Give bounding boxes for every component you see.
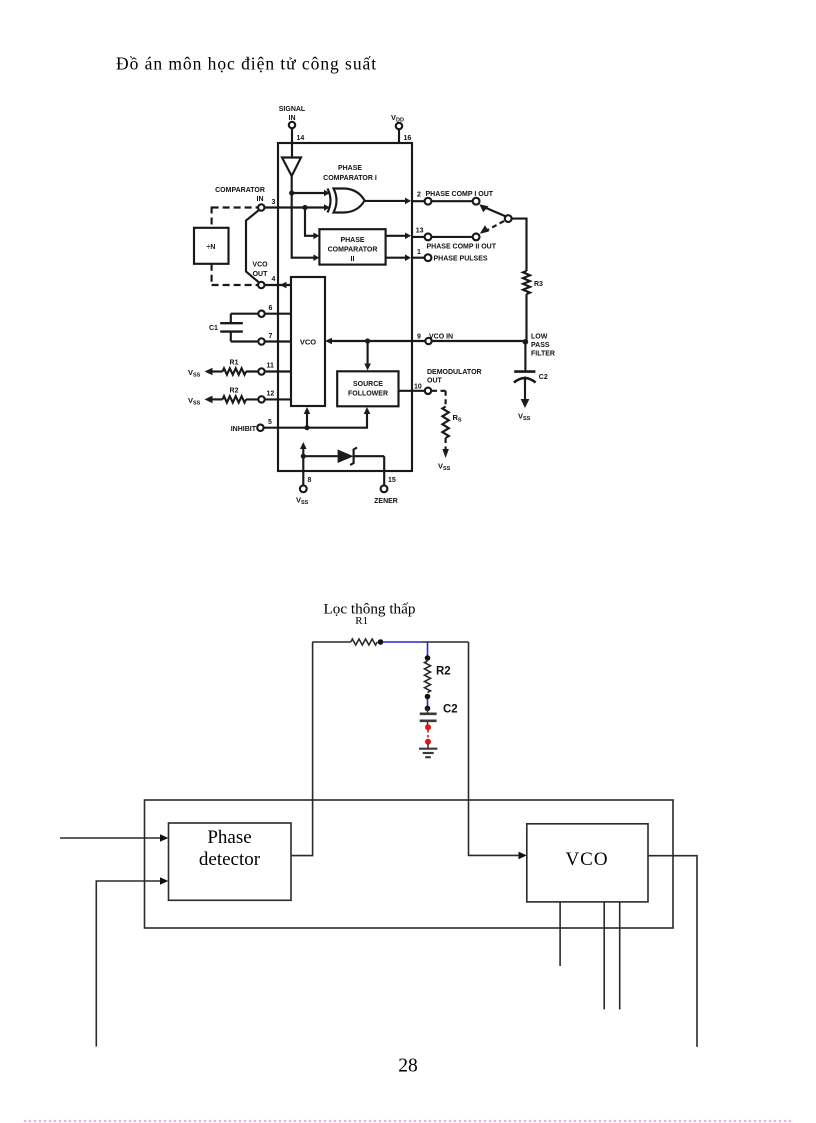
capacitor C2 — [514, 342, 548, 422]
pin 1 PHASE PULSES — [412, 249, 488, 263]
pin 8 VSS terminal — [296, 456, 312, 506]
wire pin3 junction to XOR lower input — [305, 204, 330, 211]
pin 4 VCO OUT terminal — [252, 262, 291, 289]
svg-text:VSS: VSS — [518, 412, 531, 423]
svg-text:COMPARATOR I: COMPARATOR I — [323, 175, 377, 182]
svg-text:IN: IN — [289, 115, 296, 122]
red node dot 2 — [425, 739, 431, 745]
svg-text:4: 4 — [272, 276, 276, 283]
pin 5 INHIBIT terminal — [231, 419, 307, 433]
junction on inhibit wire — [304, 425, 309, 430]
arrowhead into VCO (lower) — [519, 852, 527, 860]
svg-text:PHASE COMP II OUT: PHASE COMP II OUT — [427, 244, 497, 251]
pin 2 PHASE COMP I OUT — [412, 191, 494, 205]
svg-text:SOURCE: SOURCE — [353, 381, 383, 388]
pin 3 COMPARATOR IN terminal — [215, 187, 305, 211]
wire XOR output to pin 2 — [365, 198, 411, 205]
junction node below amplifier — [289, 190, 294, 195]
svg-text:VCO IN: VCO IN — [429, 334, 453, 341]
svg-text:II: II — [351, 256, 355, 263]
red node dot — [425, 724, 431, 730]
pin 13 PHASE COMP II OUT — [412, 228, 497, 251]
svg-text:SIGNAL: SIGNAL — [279, 106, 306, 113]
phase detector box — [169, 823, 292, 900]
svg-text:detector: detector — [199, 849, 261, 870]
svg-text:ZENER: ZENER — [374, 498, 398, 505]
VCO box (lower) — [527, 824, 648, 902]
svg-text:÷N: ÷N — [207, 244, 216, 251]
junction on VCO IN wire — [365, 338, 370, 343]
svg-text:PASS: PASS — [531, 342, 550, 349]
phase comparator II box — [319, 229, 385, 264]
junction dot below R2 — [425, 694, 431, 700]
junction on pin 8 wire — [301, 454, 306, 459]
XOR gate phase comparator I — [323, 165, 377, 213]
svg-text:LOW: LOW — [531, 334, 548, 341]
decorative dotted bottom border (pink) — [24, 1120, 792, 1123]
wire junction pin3 down to comparator II upper input — [305, 208, 319, 240]
junction low pass filter node — [523, 339, 529, 345]
pin 6 terminal — [231, 305, 291, 317]
resistor R1 (lower) — [351, 639, 378, 645]
svg-text:15: 15 — [388, 477, 396, 484]
svg-text:9: 9 — [417, 334, 421, 341]
LOW PASS FILTER label — [531, 334, 555, 358]
svg-text:14: 14 — [297, 135, 305, 142]
wire switch node to R3 — [512, 219, 527, 271]
switch wiper solid arm to pin2 — [479, 204, 506, 216]
svg-text:C1: C1 — [209, 325, 218, 332]
wire comparator II output to pin 1 — [386, 254, 411, 261]
svg-text:VCO: VCO — [252, 262, 268, 269]
resistor RS dashed leader and VSS arrow — [432, 391, 462, 472]
svg-text:2: 2 — [417, 192, 421, 199]
svg-text:8: 8 — [308, 477, 312, 484]
wire R3 down to VCO IN node — [525, 294, 527, 342]
svg-text:RS: RS — [453, 413, 462, 424]
wire filter top right segment — [421, 641, 468, 643]
input wire 1 with arrow — [60, 837, 162, 839]
source follower box — [337, 371, 398, 406]
svg-text:3: 3 — [272, 199, 276, 206]
svg-text:VSS: VSS — [188, 396, 201, 407]
svg-text:R1: R1 — [355, 615, 368, 627]
outer system rectangle — [145, 800, 674, 928]
wire junction down-arrow into source follower — [364, 341, 371, 371]
wire comparator II output to pin 13 — [386, 233, 411, 240]
svg-text:16: 16 — [404, 135, 412, 142]
svg-text:PHASE PULSES: PHASE PULSES — [434, 256, 488, 263]
svg-text:R1: R1 — [230, 360, 239, 367]
pin 14 terminal SIGNAL IN — [279, 106, 306, 157]
svg-text:VCO: VCO — [565, 849, 608, 870]
svg-text:FOLLOWER: FOLLOWER — [348, 391, 388, 398]
red dashed wire — [427, 730, 429, 739]
pin 9 VCO IN wire with arrow into VCO — [325, 334, 453, 345]
VCO bottom wire 1 — [559, 902, 561, 966]
svg-text:13: 13 — [416, 228, 424, 235]
pin 10 DEMODULATOR OUT — [399, 369, 482, 394]
svg-text:INHIBIT: INHIBIT — [231, 426, 257, 433]
svg-text:7: 7 — [269, 333, 273, 340]
wire pin9 to low pass node — [432, 340, 526, 342]
VCO box — [291, 277, 325, 406]
VCO output wire right and down — [648, 856, 697, 1047]
capacitor C2 (lower) — [420, 708, 437, 725]
svg-text:FILTER: FILTER — [531, 351, 555, 358]
resistor R2 with VSS arrow, pin 12 — [188, 388, 291, 407]
resistor R3 — [523, 271, 543, 294]
svg-text:Đồ án môn học điện tử công suấ: Đồ án môn học điện tử công suất — [116, 54, 377, 74]
divider block divide-by-N (dashed external) — [212, 207, 258, 286]
wire filter top left segment — [312, 641, 350, 643]
wire inhibit to source follower with up-arrow — [307, 407, 370, 428]
svg-text:COMPARATOR: COMPARATOR — [328, 247, 378, 254]
svg-text:PHASE: PHASE — [338, 165, 362, 172]
resistor R1 with VSS arrow, pin 11 — [188, 360, 291, 379]
svg-text:6: 6 — [269, 305, 273, 312]
svg-text:C2: C2 — [443, 704, 458, 716]
up arrow from pin 8 junction — [300, 442, 307, 456]
wire blue segment — [383, 641, 422, 643]
resistor R2 (lower) — [425, 661, 431, 693]
svg-text:12: 12 — [267, 390, 275, 397]
switch dashed arm to pin13 — [480, 221, 504, 234]
svg-text:DEMODULATOR: DEMODULATOR — [427, 369, 482, 376]
wire to ground — [427, 744, 429, 748]
svg-text:10: 10 — [414, 384, 422, 391]
wire filter left edge down to phase detector output — [291, 642, 313, 856]
svg-text:R2: R2 — [230, 388, 239, 395]
VCO bottom wire 2 — [603, 902, 605, 1010]
svg-text:5: 5 — [268, 419, 272, 426]
wire amp junction to XOR upper input — [292, 190, 330, 197]
svg-text:11: 11 — [267, 363, 275, 370]
amplifier buffer triangle — [282, 158, 301, 194]
svg-text:COMPARATOR: COMPARATOR — [215, 187, 265, 194]
svg-text:OUT: OUT — [253, 271, 269, 278]
svg-text:IN: IN — [257, 196, 264, 203]
svg-text:PHASE COMP I OUT: PHASE COMP I OUT — [426, 191, 494, 198]
svg-text:VSS: VSS — [438, 462, 451, 473]
IC outline U1 — [278, 143, 412, 471]
svg-text:VSS: VSS — [296, 496, 309, 507]
svg-text:Phase: Phase — [207, 827, 251, 848]
svg-text:VSS: VSS — [188, 368, 201, 379]
svg-text:R2: R2 — [436, 666, 451, 678]
junction node on pin3 wire — [302, 205, 307, 210]
svg-text:VCO: VCO — [300, 338, 316, 347]
pin 16 terminal VDD — [391, 113, 411, 143]
svg-text:1: 1 — [417, 249, 421, 256]
VCO bottom wire 3 — [619, 902, 621, 1010]
junction dot above R2 — [425, 655, 431, 661]
capacitor C1 — [209, 314, 243, 342]
svg-text:Lọc thông thấp: Lọc thông thấp — [324, 601, 416, 618]
wire blue segment to C2 — [427, 699, 429, 706]
zener diode D1 row — [303, 448, 384, 472]
svg-text:VDD: VDD — [391, 113, 404, 124]
svg-text:C2: C2 — [539, 374, 548, 381]
junction dot above C2 — [425, 706, 431, 712]
wire inhibit up-arrow into VCO — [304, 407, 311, 428]
svg-text:R3: R3 — [534, 281, 543, 288]
svg-text:OUT: OUT — [427, 378, 443, 385]
wire filter right edge down to VCO input — [469, 642, 524, 855]
wire blue drop to R2 — [427, 642, 429, 657]
switch common node — [505, 215, 512, 222]
svg-text:28: 28 — [398, 1055, 418, 1076]
pin 15 ZENER terminal — [374, 471, 398, 505]
pin 7 terminal — [231, 333, 291, 345]
wire amp junction down to comparator II lower input — [292, 193, 320, 261]
ground symbol — [419, 749, 437, 758]
junction dot after R1 — [378, 639, 384, 645]
input wire 2 with arrow — [96, 881, 162, 1047]
svg-text:PHASE: PHASE — [340, 237, 364, 244]
wire feedback pin3 to pin4 (solid bent) — [246, 210, 259, 283]
